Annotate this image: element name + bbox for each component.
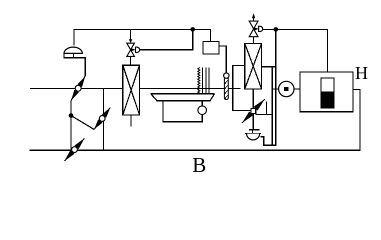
wire: left branch vertical pipe x=70	[70, 100, 72, 150]
wire: actuator signal line to riser x=192	[139, 29, 193, 49]
vent arrow to atmosphere	[252, 13, 255, 21]
valve V2 on vertical pipe	[94, 108, 110, 130]
thermometer T1 in pipe	[224, 73, 229, 100]
wire: top-right impulse line with corner to tank	[262, 29, 328, 78]
wire: vertical drain below column	[252, 89, 254, 130]
instrument box B1 (small square)	[203, 42, 219, 55]
wire: stub from box B1 to thermometer	[219, 46, 226, 73]
column C1 (rect with X) right tower	[245, 43, 262, 89]
bath (basin) with pedestal	[151, 94, 215, 122]
vent valve V4 (vertical bowtie with circle)	[249, 21, 263, 37]
level pot inside tank (part filled)	[321, 78, 334, 108]
wire: vertical pipe x=103.6 (main to bottom)	[103, 88, 105, 150]
node: junction dot at (192,29.4)	[190, 27, 195, 32]
pump P1 (circle with solid hub)	[279, 81, 294, 96]
valve V1 on main pipe (diagonal cock)	[71, 76, 85, 100]
wire: inner right riser from valve V5	[256, 67, 273, 115]
heater element comb above bath	[198, 68, 209, 94]
valve V3 on bottom pipe	[65, 138, 85, 161]
drain trap circle under bath	[198, 106, 207, 115]
valve V5 (diagonal with square plug) below column	[242, 99, 265, 123]
wire: slanted link from junction to valve V2	[71, 116, 94, 130]
wire: stub from valve V5 tip down	[265, 102, 267, 115]
node: junction dot at (274.9,29.4)	[274, 27, 279, 32]
pressure bell sensor (dome) top-left	[64, 47, 85, 76]
wire: right vertical down to U-bend	[261, 29, 276, 145]
filter F1 (rect with X) on main pipe	[123, 65, 140, 115]
wire: bottom pipe (y=150) with riser to tank outlet	[29, 89, 360, 150]
wire: left bypass branch of right tower	[233, 66, 251, 111]
control valve CV1 with actuator circle	[127, 29, 140, 65]
wire: pump suction pipe	[272, 88, 300, 90]
wire: drop to U-bend	[271, 114, 273, 145]
wire: stub below filter F1	[130, 115, 132, 127]
tank unit (big box)	[300, 72, 353, 112]
label H (right of tank)	[355, 63, 368, 84]
wire: impulse line top-left (y=29.4, x 74 to 210.6)	[74, 29, 211, 45]
wire: right connector from column	[262, 66, 276, 68]
label В (bottom center)	[192, 153, 206, 178]
node: junction dot on left branch	[69, 113, 74, 118]
wire: main pipe (y=88.4, x 29.8 to 240.5)	[30, 87, 241, 89]
wire: stub valve V4 to column	[252, 37, 254, 44]
drain bell (inverted dome) at tower bottom	[245, 130, 261, 140]
